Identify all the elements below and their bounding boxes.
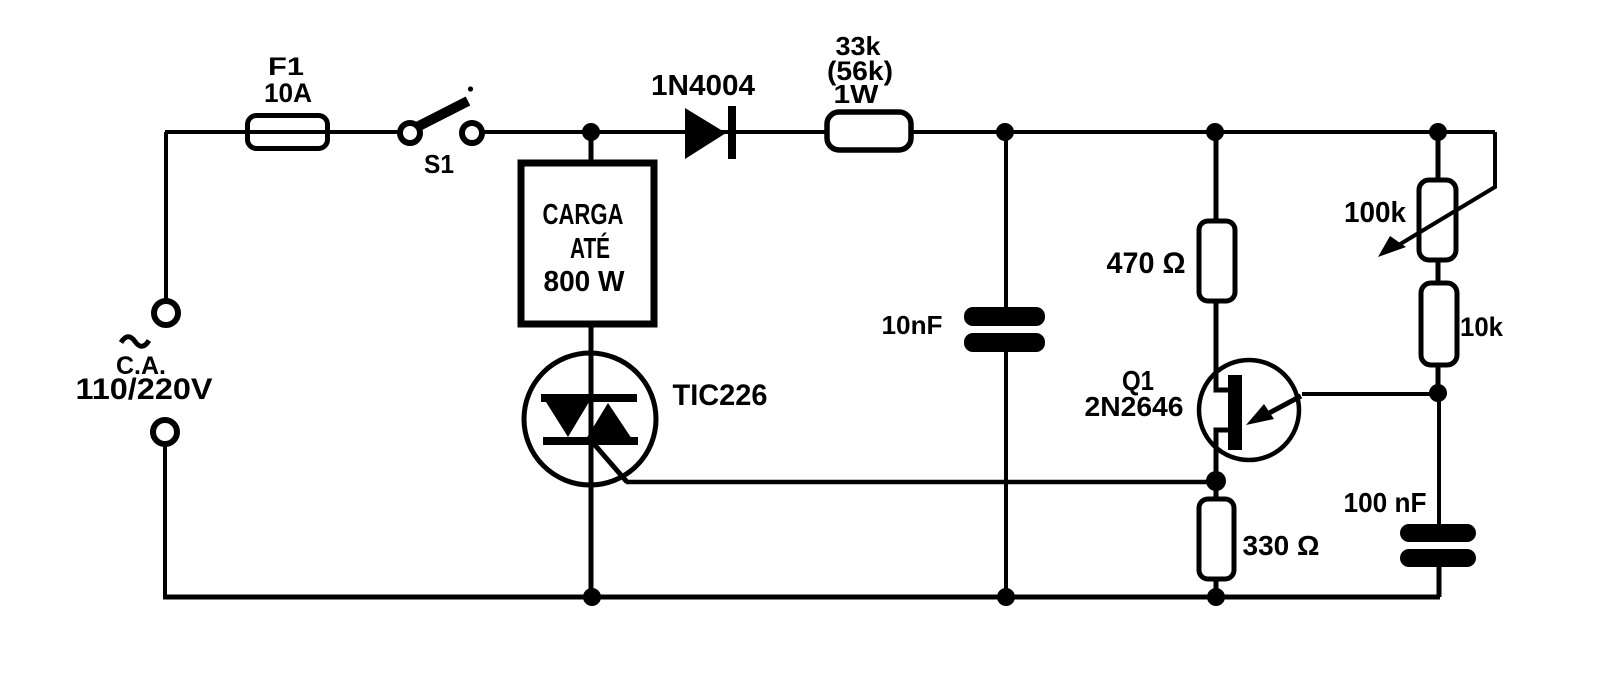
wire left vertical upper (top terminal to rail) <box>164 132 168 300</box>
svg-text:330 Ω: 330 Ω <box>1243 530 1320 561</box>
svg-text:100k: 100k <box>1344 197 1407 229</box>
node junction at load/diode <box>582 123 600 141</box>
node junction at 470 branch <box>1206 123 1224 141</box>
fuse F1 <box>248 116 328 149</box>
transistor Q1 UJT 2N2646 <box>1199 360 1301 460</box>
wire load box to triac vertical <box>589 324 594 597</box>
svg-text:800 W: 800 W <box>544 266 626 298</box>
wire top rail middle segment (switch to 33k) <box>483 130 830 134</box>
svg-text:TIC226: TIC226 <box>673 379 768 412</box>
label AC tilde <box>121 337 149 347</box>
wire top rail left segment (AC to switch) <box>165 130 400 134</box>
resistor 10k <box>1421 283 1457 365</box>
load box CARGA ATE 800W <box>521 163 654 324</box>
wire left vertical lower (bottom terminal to bus) <box>163 445 167 597</box>
resistor 33k <box>827 112 911 150</box>
svg-text:F1: F1 <box>268 53 304 81</box>
svg-text:110/220V: 110/220V <box>76 373 213 406</box>
node junction bus below triac <box>583 588 601 606</box>
resistor 330 ohm <box>1199 499 1234 579</box>
wire down to pot <box>1436 132 1441 181</box>
wire 10nF to bus <box>1004 351 1008 597</box>
svg-text:S1: S1 <box>424 149 454 179</box>
svg-text:1N4004: 1N4004 <box>651 70 755 102</box>
svg-text:ATÉ: ATÉ <box>570 231 610 265</box>
wire pot to 10k <box>1436 260 1441 284</box>
wire UJT base1 down <box>1216 430 1229 499</box>
wire 470 to UJT base2 <box>1216 301 1229 390</box>
node junction gate/base1/330 <box>1206 471 1226 491</box>
svg-text:2N2646: 2N2646 <box>1085 391 1184 422</box>
svg-text:100 nF: 100 nF <box>1344 487 1427 518</box>
node junction emitter/10k/100nF <box>1429 384 1447 402</box>
wire 100nF to bus <box>1437 566 1442 597</box>
triac TIC226 <box>524 353 656 485</box>
resistor 470 ohm <box>1199 221 1235 301</box>
capacitor C2 100nF <box>1400 524 1476 567</box>
wire down to 100nF <box>1437 393 1441 525</box>
node junction at pot branch <box>1429 123 1447 141</box>
wire bottom bus <box>163 595 1440 600</box>
svg-text:CARGA: CARGA <box>543 199 624 231</box>
node junction bus below 10nF <box>997 588 1015 606</box>
wire top rail right segment (33k to pot corner) <box>910 130 1495 134</box>
svg-text:10nF: 10nF <box>882 310 943 340</box>
wire triac gate to UJT base1 <box>626 480 1216 485</box>
terminal top (AC input) <box>154 301 178 325</box>
wire down to 10nF <box>1004 132 1008 308</box>
switch S1 <box>400 86 482 143</box>
svg-text:470 Ω: 470 Ω <box>1107 247 1186 280</box>
wire junction to load box <box>589 132 594 165</box>
wire UJT emitter <box>1302 392 1438 396</box>
wire 330 to bus <box>1214 579 1219 597</box>
diode D1 1N4004 <box>685 106 736 159</box>
node junction bus below 330 <box>1207 588 1225 606</box>
potentiometer 100k <box>1378 132 1495 260</box>
svg-text:10A: 10A <box>264 78 312 108</box>
terminal bottom (AC input) <box>153 420 177 444</box>
wire down to 470 <box>1214 132 1219 222</box>
wire 10k to emitter node <box>1436 365 1441 394</box>
svg-text:10k: 10k <box>1460 312 1504 342</box>
node junction at 10nF branch <box>996 123 1014 141</box>
svg-text:1W: 1W <box>834 79 880 109</box>
capacitor C1 10nF <box>964 307 1045 352</box>
